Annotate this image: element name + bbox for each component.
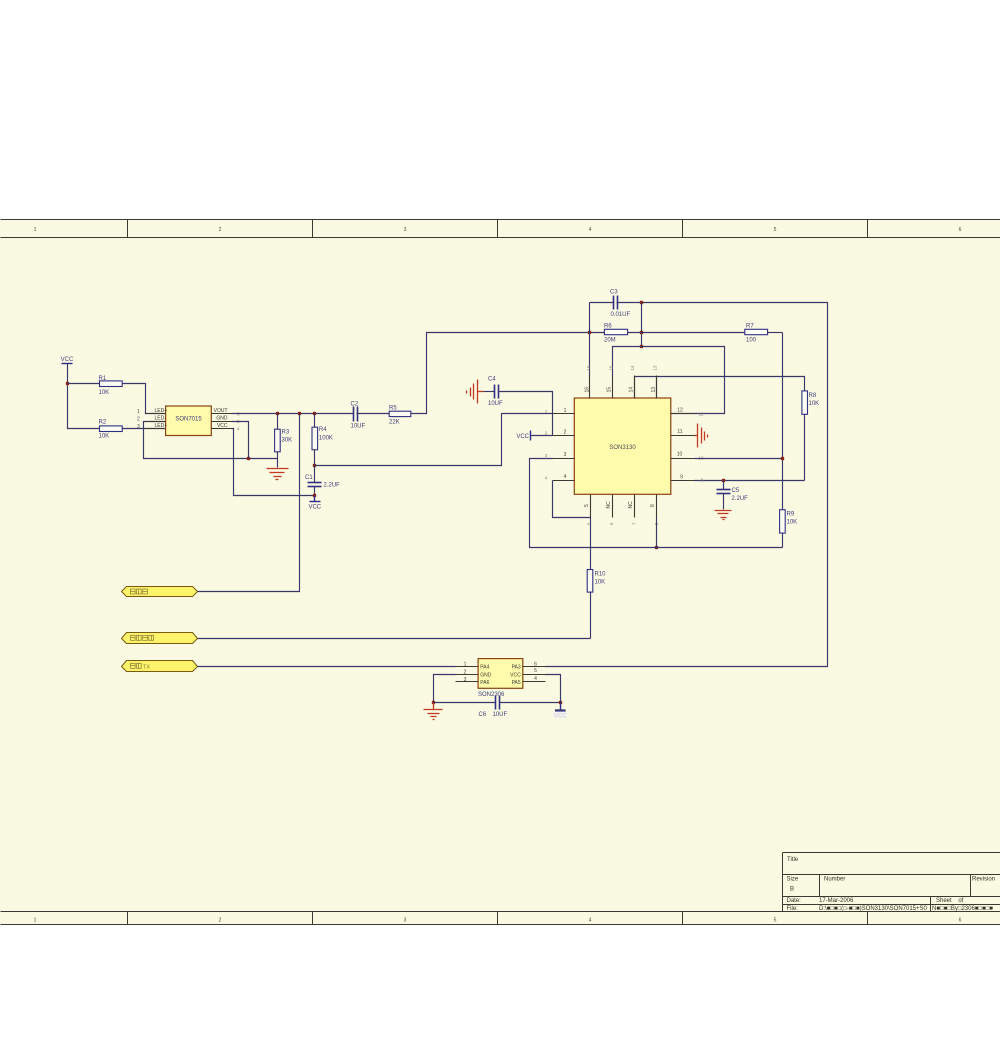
svg-text:C1: C1	[305, 475, 313, 481]
wire U1 GND pin down	[232, 422, 249, 459]
junction bus/pin8	[781, 457, 784, 460]
svg-text:5: 5	[774, 227, 777, 233]
resistor R5	[389, 405, 411, 425]
sheet border bottom strip	[1, 912, 1000, 925]
svg-text:NC: NC	[606, 501, 612, 509]
svg-text:14: 14	[628, 387, 634, 393]
svg-text:Title: Title	[787, 857, 799, 863]
svg-text:3: 3	[404, 918, 407, 924]
svg-text:14: 14	[630, 365, 635, 371]
svg-text:C2: C2	[351, 401, 359, 407]
wire U3 VCC pin down	[546, 675, 561, 703]
svg-text:10K: 10K	[787, 519, 798, 525]
svg-text:4: 4	[589, 918, 592, 924]
svg-text:VCC: VCC	[308, 505, 321, 511]
svg-text:6: 6	[534, 661, 537, 667]
port flag 2	[122, 633, 198, 644]
svg-text:10: 10	[677, 452, 683, 458]
svg-text:2: 2	[464, 669, 467, 675]
svg-text:17-Mar-2006: 17-Mar-2006	[819, 898, 854, 904]
svg-text:2: 2	[219, 918, 222, 924]
svg-text:Size: Size	[787, 877, 799, 883]
resistor R7	[745, 323, 783, 343]
wire R8 bottom to pin9	[695, 480, 805, 482]
junction C1 bottom	[313, 494, 316, 497]
svg-text:2: 2	[219, 227, 222, 233]
svg-text:3: 3	[464, 677, 467, 683]
svg-text:NC: NC	[628, 501, 634, 509]
svg-text:100K: 100K	[319, 436, 333, 442]
svg-text:PA6: PA6	[480, 680, 489, 686]
junction GND rail	[247, 457, 250, 460]
resistor R2	[99, 419, 123, 439]
svg-text:1: 1	[137, 409, 140, 415]
ground at U2 pin11	[695, 424, 708, 448]
svg-text:C6: C6	[479, 712, 487, 718]
svg-text:D:\■□■□(□-■□■)SON3130\SON7015+: D:\■□■□(□-■□■)SON3130\SON7015+S0	[819, 906, 928, 912]
junction VOUT/R4	[313, 412, 316, 415]
wire R1 to U1 pin1	[123, 384, 166, 414]
svg-text:10UF: 10UF	[351, 424, 366, 430]
wire R2 to U1 pin3	[123, 428, 166, 430]
svg-text:TX: TX	[143, 665, 150, 671]
wire C4 to U2 pin2	[499, 392, 553, 436]
wire C3 rail to right edge vertical	[546, 303, 828, 667]
wire pin15 rail	[613, 347, 725, 414]
svg-text:R6: R6	[604, 323, 612, 329]
svg-text:6: 6	[959, 918, 962, 924]
wire R7 down to R9	[782, 333, 784, 510]
svg-text:File:: File:	[787, 906, 799, 912]
svg-text:1: 1	[34, 918, 37, 924]
svg-text:10K: 10K	[595, 580, 606, 586]
power port VCC at U2 pin2	[516, 431, 552, 441]
svg-text:R2: R2	[99, 419, 107, 425]
svg-text:R10: R10	[595, 572, 607, 578]
svg-text:10UF: 10UF	[493, 712, 508, 718]
svg-text:1: 1	[564, 408, 567, 414]
wire U1 VCC pin down-right	[232, 429, 315, 496]
svg-text:3: 3	[564, 452, 567, 458]
svg-text:Revision: Revision	[972, 877, 995, 883]
resistor R3	[275, 414, 293, 468]
junction C6 right	[559, 701, 562, 704]
resistor R8	[802, 391, 819, 481]
svg-text:SON3130: SON3130	[609, 445, 636, 451]
svg-text:R4: R4	[319, 427, 327, 433]
svg-text:SON7015: SON7015	[175, 417, 202, 423]
svg-text:VCC: VCC	[554, 713, 567, 719]
svg-text:20M: 20M	[604, 337, 616, 343]
svg-text:C5: C5	[732, 488, 740, 494]
wire R5 up to R6 rail	[411, 333, 605, 414]
junction R4 bottom	[313, 464, 316, 467]
wire VCC to R1	[68, 383, 100, 385]
wire R10 to flag2	[198, 638, 591, 640]
wire pin5 column down to R10	[590, 518, 592, 570]
svg-text:1: 1	[34, 227, 37, 233]
wire U2 pin4 link to pin5 column	[553, 481, 591, 518]
junction pin9/C5	[722, 479, 725, 482]
svg-text:VCC: VCC	[510, 672, 521, 678]
svg-text:15: 15	[608, 365, 613, 371]
junction rail/pin16 wire	[588, 331, 591, 334]
sheet border top strip	[1, 220, 1000, 238]
resistor R4	[312, 414, 333, 466]
svg-text:9: 9	[680, 474, 683, 480]
wire U2 pin3 to bottom bus	[530, 459, 783, 548]
wire U2 pin10 to R9 top	[695, 458, 783, 460]
junction link/pin15 rail	[640, 345, 643, 348]
svg-text:8: 8	[650, 504, 656, 507]
svg-text:LED+: LED+	[155, 423, 168, 429]
svg-text:2: 2	[137, 417, 140, 423]
IC U2 SON3130	[545, 365, 704, 525]
wire pin13 up	[656, 377, 658, 399]
svg-text:2.2UF: 2.2UF	[732, 496, 749, 502]
svg-text:16: 16	[586, 365, 591, 371]
junction C6 left	[432, 701, 435, 704]
power port VCC at C6 right	[553, 703, 568, 720]
svg-text:15: 15	[607, 387, 613, 393]
svg-text:LED-: LED-	[155, 416, 167, 422]
svg-text:4: 4	[564, 474, 567, 480]
power port VCC below C1	[308, 496, 321, 511]
title block	[783, 853, 1000, 913]
svg-text:3: 3	[137, 424, 140, 430]
svg-text:13: 13	[653, 365, 658, 371]
svg-text:R5: R5	[389, 405, 397, 411]
svg-text:2: 2	[564, 430, 567, 436]
svg-text:10K: 10K	[99, 390, 110, 396]
wire VOUT rail	[232, 413, 354, 415]
svg-text:VCC: VCC	[217, 423, 228, 429]
svg-text:0.01UF: 0.01UF	[611, 312, 631, 318]
svg-text:VOUT: VOUT	[214, 408, 228, 414]
svg-text:11: 11	[677, 429, 682, 435]
resistor R1	[99, 376, 123, 396]
resistor R10	[587, 570, 606, 639]
svg-text:VCC: VCC	[61, 357, 74, 363]
svg-text:Sheet of: Sheet of	[936, 898, 964, 904]
svg-text:N■□■□By□2306■□■□■: N■□■□By□2306■□■□■	[932, 906, 993, 912]
svg-text:PA5: PA5	[512, 680, 521, 686]
svg-text:PA4: PA4	[480, 664, 489, 670]
junction VOUT/flag wire	[298, 412, 301, 415]
svg-text:R7: R7	[746, 323, 754, 329]
junction pin10/R7R9	[655, 546, 658, 549]
svg-text:GND: GND	[216, 416, 228, 422]
svg-text:10UF: 10UF	[488, 401, 503, 407]
capacitor C4	[484, 376, 504, 407]
svg-text:6: 6	[959, 227, 962, 233]
wire U3 GND pin down	[434, 675, 456, 703]
svg-text:12: 12	[677, 408, 683, 414]
svg-text:GND: GND	[480, 672, 492, 678]
port flag 1	[122, 587, 198, 597]
svg-text:100: 100	[746, 337, 757, 343]
svg-text:22K: 22K	[389, 419, 400, 425]
regulator U1 SON7015	[137, 406, 240, 436]
svg-text:3: 3	[404, 227, 407, 233]
wire pin16 vertical	[589, 303, 591, 377]
wire flag1 up to VOUT rail	[198, 414, 300, 592]
svg-text:VCC: VCC	[516, 434, 529, 440]
junction VOUT/R3	[276, 412, 279, 415]
svg-text:C3: C3	[610, 290, 618, 296]
svg-text:1: 1	[464, 661, 467, 667]
ground under R3	[267, 469, 289, 480]
wire R4 to U2 pin1	[315, 414, 553, 466]
svg-text:R9: R9	[787, 511, 795, 517]
capacitor C2	[351, 401, 390, 429]
svg-text:10K: 10K	[99, 433, 110, 439]
svg-text:5: 5	[534, 668, 537, 674]
IC U3 SON2306	[456, 659, 546, 698]
svg-text:SON2306: SON2306	[478, 692, 505, 698]
svg-text:12: 12	[698, 411, 704, 416]
wire link C3-R6-pin15 rails	[641, 303, 643, 347]
svg-text:16: 16	[584, 387, 590, 393]
wire flag3 to U3 pin1	[198, 666, 456, 668]
svg-text:Date:: Date:	[787, 898, 802, 904]
resistor R9	[780, 510, 798, 548]
capacitor C6	[434, 696, 561, 718]
junction link/R6 rail	[640, 331, 643, 334]
wire pin14-13 rail to R8	[635, 377, 805, 399]
svg-text:4: 4	[534, 676, 537, 682]
svg-text:PA3: PA3	[512, 664, 521, 670]
svg-text:2.2UF: 2.2UF	[324, 483, 341, 489]
sheet background	[0, 219, 1000, 925]
junction C3/R6 link top	[640, 301, 643, 304]
svg-text:5: 5	[774, 918, 777, 924]
ground under C5	[715, 511, 732, 520]
junction VCC/R1	[66, 382, 69, 385]
port flag 3	[122, 661, 198, 672]
svg-text:C4: C4	[488, 376, 496, 382]
svg-text:R8: R8	[809, 393, 817, 399]
capacitor C5	[717, 481, 749, 510]
capacitor C3	[590, 290, 631, 318]
svg-text:B: B	[790, 887, 794, 893]
svg-text:LED+: LED+	[155, 408, 168, 414]
resistor R6	[604, 323, 745, 343]
ground under C6 junction	[424, 703, 443, 720]
wire pin8 down to bus	[656, 518, 658, 548]
wire VCC feed	[68, 364, 100, 429]
svg-text:10K: 10K	[809, 401, 820, 407]
ground left of C4	[467, 380, 484, 404]
svg-text:R1: R1	[99, 376, 107, 382]
power port VCC top-left	[61, 357, 74, 364]
capacitor C1	[305, 466, 340, 496]
svg-text:4: 4	[589, 227, 592, 233]
svg-text:Number: Number	[824, 877, 845, 883]
svg-text:13: 13	[651, 387, 657, 393]
svg-text:R3: R3	[282, 429, 290, 435]
wire U1 pin2 to ground rail	[144, 422, 278, 459]
svg-text:30K: 30K	[282, 437, 293, 443]
svg-text:5: 5	[584, 504, 590, 507]
